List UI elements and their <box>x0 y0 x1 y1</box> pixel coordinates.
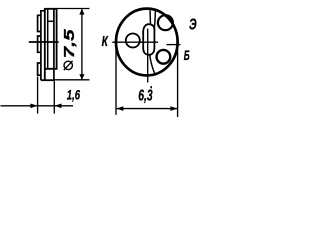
extension line left (6,3) <box>115 44 117 115</box>
arrowhead 1,6 right <box>54 104 61 109</box>
svg-text:7,5: 7,5 <box>61 28 78 58</box>
can front face line (side view) <box>53 9 55 80</box>
extension line left (1,6) <box>37 77 39 114</box>
wire lead axis line (side view) <box>29 41 59 43</box>
extension line right (6,3) <box>177 44 179 117</box>
can inner top crossbar (side view) <box>48 20 54 22</box>
can inner wall line (side view) <box>47 9 49 69</box>
arrowhead 1,6 left <box>30 104 37 109</box>
dimension extension line top (d7.5) <box>45 8 90 10</box>
svg-text:Б: Б <box>184 48 190 63</box>
wire tab line from keyhole to rim bottom <box>150 55 155 74</box>
label d7,5 diameter symbol circle <box>64 61 72 69</box>
lead stub middle (collector lead, side view) <box>38 36 41 52</box>
dimension line 1,6 <box>1 105 74 107</box>
arrowhead 6,3 right <box>170 106 177 111</box>
lead stub bottom (base lead, side view) <box>38 63 41 75</box>
svg-text:1,6: 1,6 <box>67 86 80 102</box>
lead stub top (emitter lead, side view) <box>38 15 41 31</box>
arrowhead 6,3 left <box>116 106 123 111</box>
dimension line d7.5 <box>81 9 83 80</box>
label d7,5 diameter symbol slash <box>64 61 73 70</box>
arrowhead d7.5 bottom <box>79 74 84 80</box>
arrowhead d7.5 top <box>79 9 84 15</box>
can body (side view) <box>45 9 57 80</box>
label 6,3 stray mark <box>150 86 152 89</box>
key slot right edge <box>153 11 156 27</box>
svg-text:Э: Э <box>189 16 197 33</box>
horizontal axis line (bottom view) <box>112 41 158 43</box>
dimension line 6,3 <box>116 108 177 110</box>
central keyhole oval (bottom view) <box>143 24 154 55</box>
dimension extension line bottom (d7.5) <box>54 79 90 81</box>
can bottom edge (side view) <box>41 79 54 81</box>
svg-text:К: К <box>102 34 109 50</box>
vertical axis line (bottom view) <box>147 29 149 83</box>
big circle package outline (bottom view) <box>116 9 178 76</box>
pin B ring <box>157 50 171 64</box>
extension line right (1,6) <box>53 80 55 113</box>
flange plate (side view) <box>41 11 45 80</box>
key slot left edge <box>149 10 152 24</box>
svg-text:6,3: 6,3 <box>138 88 153 105</box>
wire axis right segment crossing rim <box>167 44 181 46</box>
pin K circle <box>126 34 140 48</box>
pin E ring <box>158 15 173 30</box>
